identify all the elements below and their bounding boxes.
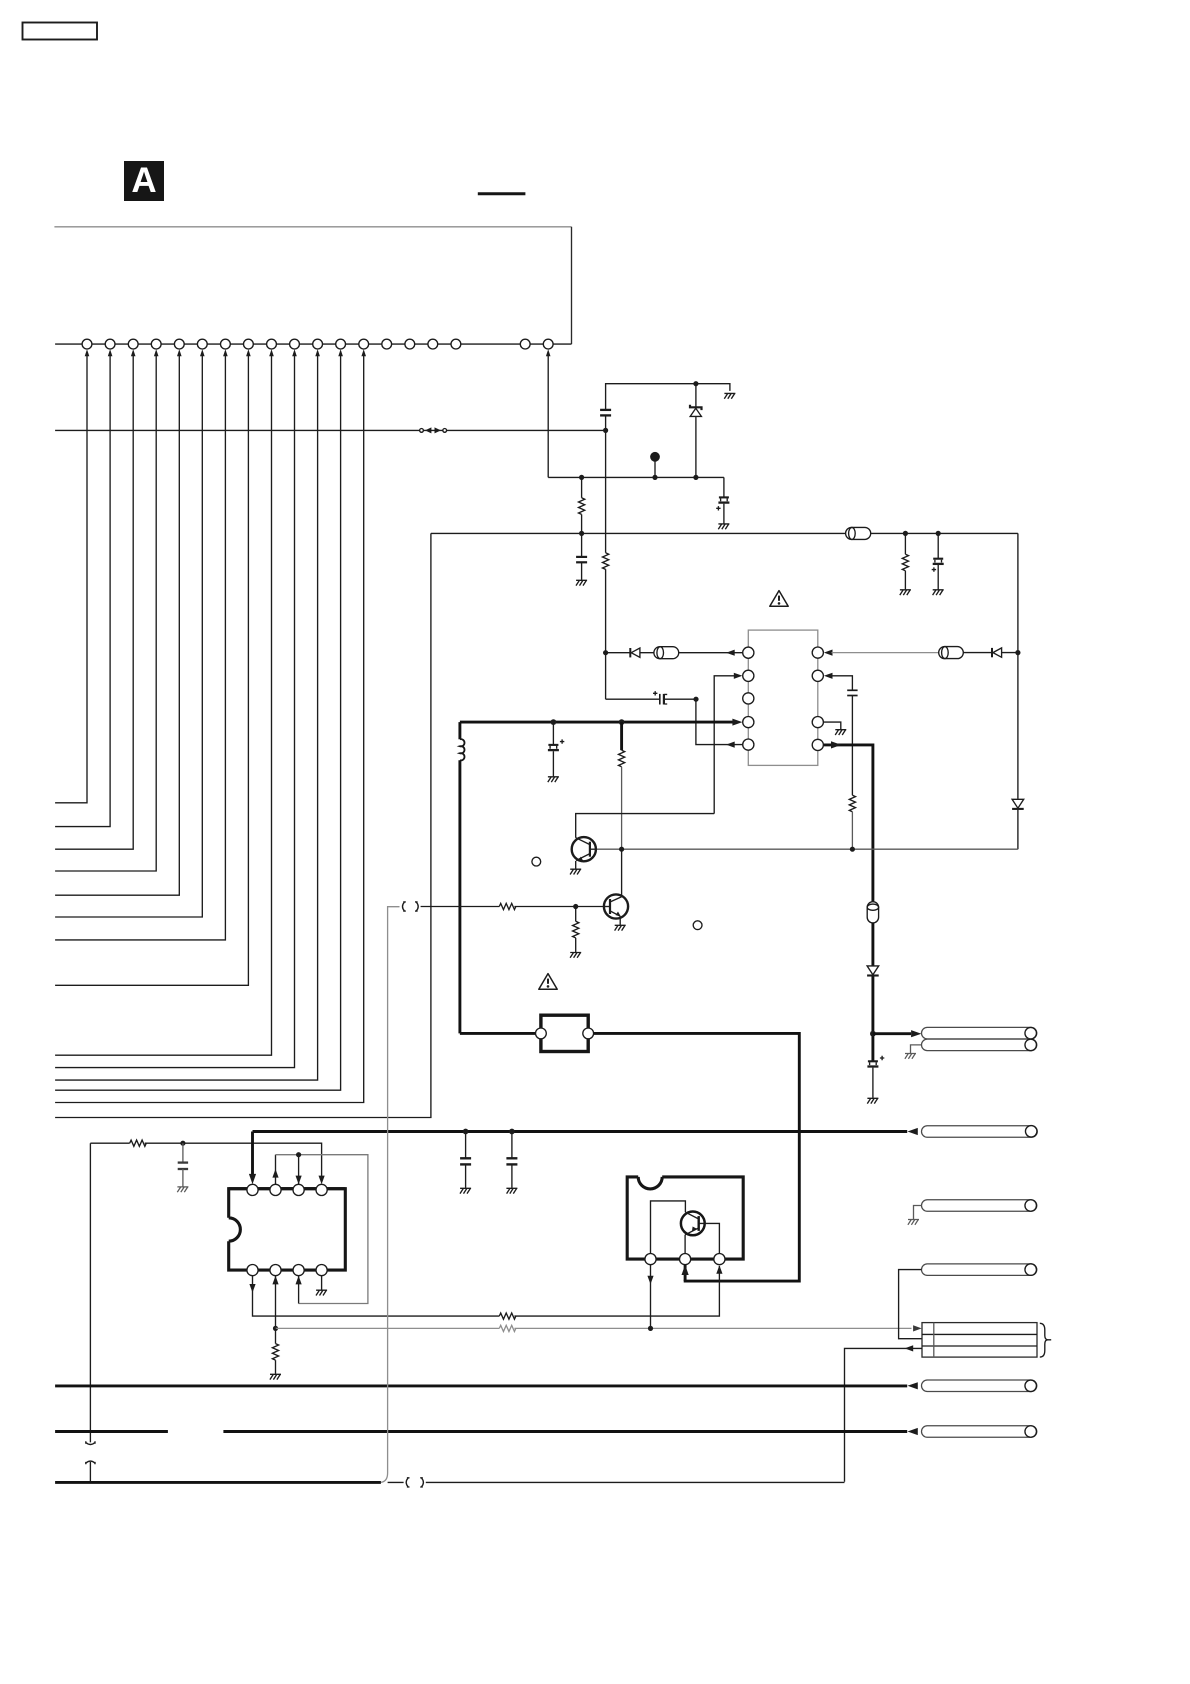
wire y813 collector link (576, 814, 715, 838)
connector pin 17 (451, 339, 461, 349)
ground below x553 cap (548, 777, 559, 782)
thick rail y722 (460, 721, 734, 724)
wire x605 cap to diode row (605, 415, 607, 699)
battery pack box (922, 1323, 1037, 1358)
capacitor C on x183 (178, 1143, 188, 1186)
DIP IC box (229, 1189, 346, 1270)
wire pin R1 gray to cylinder (832, 652, 939, 654)
junction at (605.6,430.4) (603, 428, 608, 433)
resistor R on x605 (602, 553, 608, 570)
wire x1018 right vertical (1017, 533, 1019, 849)
wire Q2 base row y906 (421, 906, 604, 908)
resistor R on y1316 (499, 1313, 516, 1319)
connector pin 13 (359, 339, 369, 349)
warning triangle caution mark 2 (539, 974, 557, 990)
gray rail y1154.7 (276, 1155, 368, 1304)
ground below Q2 (615, 925, 626, 930)
connector pin 19 (543, 339, 553, 349)
junction at (275.5,1328.4) (273, 1326, 278, 1331)
wire top rail y383.7 (606, 384, 730, 410)
connector pin 14 (382, 339, 392, 349)
wire pin 1 to left edge (55, 356, 87, 803)
transistor Q3 inside IC2 (681, 1212, 720, 1254)
arrow into battery pack (913, 1325, 922, 1331)
capacitor C on x581 (576, 557, 587, 580)
connector pin 1 (82, 339, 92, 349)
junction at (621.6,849.2) (619, 847, 624, 852)
junction at (938.2,533.4) (936, 531, 941, 536)
fusible resistor FR cylinder on x873 (867, 902, 878, 923)
junction at (852.4,849.2) (850, 847, 855, 852)
IC pin R2 (812, 670, 823, 681)
inline connector pair on y1482 (406, 1478, 423, 1487)
thick bus y1431.5 segment 2 (223, 1430, 907, 1433)
wire pin 6 to left edge (55, 356, 202, 918)
ground below x575 resistor (570, 953, 581, 958)
junction at (695.9,383.7) (693, 381, 698, 386)
arrow into pin L4 (732, 719, 742, 726)
junction at (298.6,1154.7) (296, 1152, 301, 1157)
connector pin 2 (105, 339, 115, 349)
DIP pin B3 (293, 1265, 304, 1276)
IC2 pin P1 (645, 1254, 656, 1265)
gray rail y1328.4 (276, 1327, 912, 1329)
junction at (575.7,906.5) (573, 904, 578, 909)
test point circle TP3 (693, 921, 702, 930)
value underline mark (478, 192, 526, 195)
resistor R on y1328 (499, 1325, 516, 1331)
arrow into pin L2 (734, 673, 743, 679)
IC shield box gray outline (748, 630, 818, 765)
wire pin 3 to left edge (55, 356, 133, 850)
junction at (695.9,477.4) (693, 475, 698, 480)
arrow into pin R2 (824, 673, 833, 679)
big box left edge x431 (55, 533, 431, 1117)
harness pill P1a (922, 1027, 1037, 1039)
arrow into pin T4 (319, 1176, 325, 1185)
wire resistor to y849 rail (851, 812, 853, 849)
wire pin 2 to left edge (55, 356, 110, 827)
wire pin B2 down to gray net (275, 1276, 277, 1329)
IC pin R4 (812, 739, 823, 750)
connector pin 12 (336, 339, 346, 349)
page frame box top-left (23, 23, 98, 40)
connector pin 3 (128, 339, 138, 349)
capacitor C on x465 (460, 1132, 471, 1188)
svg-text:A: A (131, 161, 156, 200)
electrolytic capacitor C on x873 (867, 1056, 884, 1098)
DIP pin T4 (316, 1184, 327, 1195)
IC pin R3 (812, 717, 823, 728)
wire pin 4 to left edge (55, 356, 156, 872)
inline connector pair vertical on x90 (86, 1441, 95, 1482)
thick bus y1431.5 segment 1 (55, 1430, 168, 1433)
harness pill P3 (922, 1200, 1037, 1212)
connector pin 4 (151, 339, 161, 349)
junction at (581.6,477.4) (579, 475, 584, 480)
capacitor C on x852 (847, 690, 857, 695)
wire pin 8 to left edge (55, 356, 248, 986)
junction at (581.6,533.4) (579, 531, 584, 536)
connector pin bus line (55, 343, 571, 345)
wire pin T3 from gray rail (298, 1155, 300, 1185)
ground below x905 resistor (900, 590, 911, 595)
connector pin 16 (428, 339, 438, 349)
IC pin L2 (743, 670, 754, 681)
transistor Q1 (572, 837, 596, 869)
ground at pin R3 (835, 730, 846, 735)
ground below x581 cap (576, 580, 587, 585)
wire IC2 pin P1 down (650, 1265, 652, 1329)
inline connector pair on y906 (403, 902, 419, 911)
thick wire IC2 pin P2 (684, 1265, 687, 1281)
test point circle TP2 (532, 857, 541, 866)
thick rail y1033 right to corner x799 (594, 1033, 800, 1281)
ground hook for pill P1b (911, 1045, 922, 1053)
resistor R on x852 (849, 795, 855, 812)
resistor R on x275 (272, 1328, 278, 1374)
resistor R on y906 (499, 903, 516, 909)
relay box K (536, 1015, 594, 1051)
arrow to harness P2 (908, 1128, 922, 1135)
IC2 internal wiring (651, 1201, 686, 1254)
connector pin 11 (313, 339, 323, 349)
arrow into pin R1 (824, 650, 833, 656)
IC pin L1 (743, 647, 754, 658)
wire connector to node at x605 (447, 429, 606, 431)
wire pin 12 to left edge (55, 356, 341, 1091)
junction at (650.5,1328.4) (648, 1326, 653, 1331)
ground below pin B4 (316, 1290, 327, 1295)
IC pin R1 (812, 647, 823, 658)
electrolytic capacitor C on x553 (548, 722, 564, 776)
thick bus y1482.4 (55, 1481, 381, 1484)
wire pin R2 to x852 branch (832, 676, 853, 690)
DIP pin B1 (247, 1265, 258, 1276)
DIP pin T1 (247, 1184, 258, 1195)
wire net y430 from left edge (55, 429, 420, 431)
ground below x512 cap (506, 1188, 517, 1193)
junction at (511.9,1131.5) (509, 1129, 515, 1135)
ground at top right (724, 393, 735, 398)
connector block right edge (571, 227, 573, 344)
IC pin L3 (743, 693, 754, 704)
test point TP black dot (650, 452, 660, 478)
fusible resistor FR cylinder on y533 (846, 527, 871, 539)
wire x621 to Q2 collector (621, 849, 623, 897)
wire pin 11 to left edge (55, 356, 318, 1081)
IC pin L5 (743, 739, 754, 750)
electrolytic capacitor C row y699 (606, 691, 696, 704)
thick wire into pin T1 (251, 1132, 254, 1176)
wire pin B3 from gray rail (298, 1276, 300, 1304)
junction at (655,477.4) (652, 475, 657, 480)
warning triangle caution mark 1 (770, 591, 788, 607)
DIP pin B4 (316, 1265, 327, 1276)
resistor R on y1143 (130, 1140, 147, 1146)
harness pill P4 (922, 1264, 1037, 1276)
wire pin B1 down and right (253, 1266, 720, 1316)
hybrid IC box Q (627, 1177, 743, 1259)
harness pill P2 (922, 1126, 1038, 1138)
thick rail y1033 left (460, 1032, 536, 1035)
diode D on x1018 (1012, 799, 1024, 809)
wire pin R3 to ground (824, 722, 841, 729)
electrolytic capacitor C on x724 (716, 477, 729, 523)
wire pin B4 to ground (321, 1276, 323, 1290)
arrow into IC2 pin P3 (716, 1265, 722, 1274)
junction at (696,699.2) (693, 697, 698, 702)
fusible resistor FR cylinder at x654 (654, 647, 679, 659)
arrow to pill P5 (908, 1382, 922, 1389)
resistor R on x575 (573, 907, 579, 953)
gray feedback wire x387.6 (381, 907, 400, 1483)
ground below Q1 (570, 869, 581, 874)
wire pin 7 to left edge (55, 356, 225, 940)
junction at (553.4,722.1) (551, 719, 557, 725)
arrow on battery bottom lead (905, 1345, 914, 1351)
wire pin 19 down to node (547, 356, 549, 478)
wire rail y533 (431, 532, 1018, 534)
resistor R on x621 (618, 722, 624, 849)
thick wire diode to junction (871, 977, 874, 1061)
ground below x465 cap (460, 1188, 471, 1193)
capacitor C on x512 (506, 1132, 517, 1188)
junction at (872.9,1033.7) (870, 1031, 876, 1037)
connector pin 10 (290, 339, 300, 349)
arrow on pin R4 wire (831, 741, 841, 748)
DIP pin T3 (293, 1184, 304, 1195)
junction at (1017.9,652.6) (1015, 650, 1020, 655)
connector pin 6 (197, 339, 207, 349)
ground hook for pill P3 (914, 1206, 922, 1220)
resistor R on x905 (902, 533, 908, 589)
DIP pin T2 (270, 1184, 281, 1195)
connector pin 8 (244, 339, 254, 349)
harness pill P6 (922, 1426, 1037, 1438)
IC2 pin P2 (680, 1254, 691, 1265)
wire pin 10 to left edge (55, 356, 294, 1068)
connector pin 18 (520, 339, 530, 349)
connector pin 5 (174, 339, 184, 349)
wire rail y849 (596, 848, 1018, 850)
DIP pin B2 (270, 1265, 281, 1276)
wire pin 5 to left edge (55, 356, 179, 896)
junction at (621.6,722.1) (619, 719, 625, 725)
ground below x275 resistor (270, 1374, 281, 1379)
wire pin T2 up to gray rail (275, 1155, 277, 1185)
connector pin 15 (405, 339, 415, 349)
connector pin 9 (267, 339, 277, 349)
wire x696 zener branch to pin L5 (696, 699, 743, 744)
wire pill P4 to battery pack (899, 1270, 922, 1339)
wire cylinder to diode to x1018 (964, 652, 1018, 654)
IC pin L4 (743, 717, 754, 728)
IC2 pin P3 (714, 1254, 725, 1265)
arrow on pin L5 wire (726, 742, 735, 748)
connector block CN outline top edge (54, 226, 571, 228)
fusible resistor FR cylinder at x939 (939, 647, 964, 659)
harness pill P5 (922, 1380, 1037, 1392)
wire x714 riser to pin L2 (714, 676, 734, 814)
wire net y477 (548, 476, 724, 478)
electrolytic capacitor C on x938 (932, 533, 944, 589)
thick bus y1131.5 (253, 1130, 908, 1133)
wire x852 cap to resistor (851, 696, 853, 796)
inline connector CN pair on y430 (420, 427, 447, 433)
wire battery bottom lead y1348 (845, 1348, 923, 1481)
inductor L coil on x460 (460, 722, 465, 1033)
arrow into diode row leftward (726, 650, 735, 656)
diode D at x630 (630, 648, 640, 657)
diode D at x992 (992, 648, 1002, 657)
junction at (182.9,1143.2) (180, 1141, 185, 1146)
ground below x183 cap (177, 1187, 188, 1192)
wire y1143 row (90, 1143, 321, 1177)
connector pin 7 (221, 339, 231, 349)
junction at (465.6,1131.5) (463, 1129, 469, 1135)
junction at (605.6,652.7) (603, 650, 608, 655)
thick bus y1386 (55, 1384, 907, 1387)
wire x90 drop (89, 1143, 91, 1442)
wire pin 9 to left edge (55, 356, 271, 1056)
resistor R on x581 (578, 477, 584, 556)
section label A (124, 161, 164, 201)
harness pill P1b (922, 1039, 1037, 1051)
thick wire cylinder to diode (871, 923, 874, 966)
ground below x724 cap (718, 524, 729, 529)
zener diode D on x696 (690, 384, 702, 478)
thick branch to harness arrow (873, 1032, 911, 1035)
brace right of battery pack (1040, 1323, 1051, 1357)
capacitor C on x605 (600, 410, 611, 416)
transistor Q2 (604, 894, 628, 925)
wire pin 13 to left edge (55, 356, 364, 1103)
thin return wire y1482.4 (388, 1481, 845, 1483)
diode D on x873 (867, 966, 879, 976)
ground below x938 cap (933, 590, 944, 595)
thick wire pin R4 output (824, 745, 873, 902)
ground below x873 (867, 1098, 878, 1103)
wire diode row y652.7 left (606, 652, 743, 654)
junction at (905.4,533.4) (903, 531, 908, 536)
arrow to pill P6 (908, 1428, 922, 1435)
